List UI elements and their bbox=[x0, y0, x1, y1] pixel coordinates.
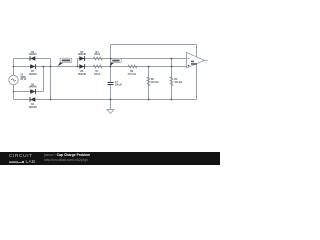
footer text bbox=[44, 153, 90, 162]
node flag 1 bbox=[58, 58, 72, 66]
wire op-amp output stub bbox=[204, 59, 207, 61]
wire ground stem bbox=[110, 100, 112, 110]
wire top rail bbox=[111, 44, 197, 46]
svg-text:1N4148: 1N4148 bbox=[78, 53, 87, 56]
svg-text:1N4148: 1N4148 bbox=[78, 73, 87, 76]
wire op-amp V- pin bbox=[196, 64, 198, 100]
wire left vertical bottom bbox=[13, 85, 15, 100]
junction dots bbox=[13, 58, 173, 101]
node flag 2 bbox=[110, 58, 121, 66]
wire vertical row2-rail bbox=[50, 67, 52, 100]
svg-text:R3: R3 bbox=[174, 79, 178, 81]
diode D4 bbox=[29, 97, 38, 109]
capacitor C7 bbox=[108, 82, 123, 87]
wire R3 vertical bbox=[171, 59, 173, 100]
wire row2 main bbox=[14, 66, 187, 68]
svg-text:2: 2 bbox=[206, 63, 208, 65]
svg-text:R2: R2 bbox=[151, 79, 155, 81]
resistor R2 bbox=[147, 77, 159, 86]
diode D3 bbox=[29, 84, 38, 94]
wire R2 vertical bbox=[148, 67, 150, 100]
wire C7 branch upper bbox=[110, 45, 112, 83]
svg-text:1N4148: 1N4148 bbox=[29, 86, 38, 89]
wire C7 branch lower bbox=[110, 85, 112, 100]
svg-text:D4: D4 bbox=[31, 103, 35, 106]
diode D5 bbox=[78, 52, 87, 61]
svg-text:100 kΩ: 100 kΩ bbox=[151, 82, 159, 84]
svg-text:1N4148: 1N4148 bbox=[29, 106, 38, 109]
svg-text:100 µF: 100 µF bbox=[115, 84, 123, 86]
wire op-amp V+ pin bbox=[196, 45, 198, 58]
svg-text:D6: D6 bbox=[80, 71, 84, 73]
wire riser row2-row1b bbox=[77, 59, 79, 67]
wire vertical row2-row3 bbox=[43, 67, 45, 92]
diode D1 bbox=[29, 64, 38, 76]
resistor R3 bbox=[170, 77, 182, 86]
diode D6 bbox=[78, 64, 87, 76]
ground bbox=[107, 110, 114, 114]
resistor R1 bbox=[93, 65, 102, 76]
wire left vertical top bbox=[13, 59, 15, 76]
svg-text:D1: D1 bbox=[31, 71, 35, 73]
wire vertical row1-row2 bbox=[50, 59, 52, 67]
resistor R4 bbox=[93, 51, 102, 60]
svg-text:47.5 kΩ: 47.5 kΩ bbox=[127, 73, 135, 76]
diode D2 bbox=[29, 52, 38, 61]
svg-text:R1: R1 bbox=[96, 71, 100, 73]
wire row3 bbox=[14, 91, 44, 93]
svg-text:100 kΩ: 100 kΩ bbox=[174, 82, 182, 84]
resistor R6 bbox=[127, 65, 137, 76]
svg-text:R6: R6 bbox=[130, 71, 134, 73]
op-amp U1 bbox=[187, 52, 208, 68]
svg-text:100 Ω: 100 Ω bbox=[94, 74, 100, 76]
svg-text:1N4148: 1N4148 bbox=[29, 53, 38, 56]
wire row1 top-left bbox=[14, 58, 51, 60]
wire row1b bbox=[78, 58, 187, 60]
CircuitLab logo bbox=[9, 154, 33, 159]
svg-text:60 Hz: 60 Hz bbox=[21, 79, 28, 81]
footer bar bbox=[0, 152, 220, 166]
svg-text:100 Ω: 100 Ω bbox=[94, 54, 100, 56]
voltage source V1 bbox=[9, 75, 28, 85]
wire bottom rail bbox=[14, 99, 197, 101]
svg-text:1N4148: 1N4148 bbox=[29, 73, 38, 76]
